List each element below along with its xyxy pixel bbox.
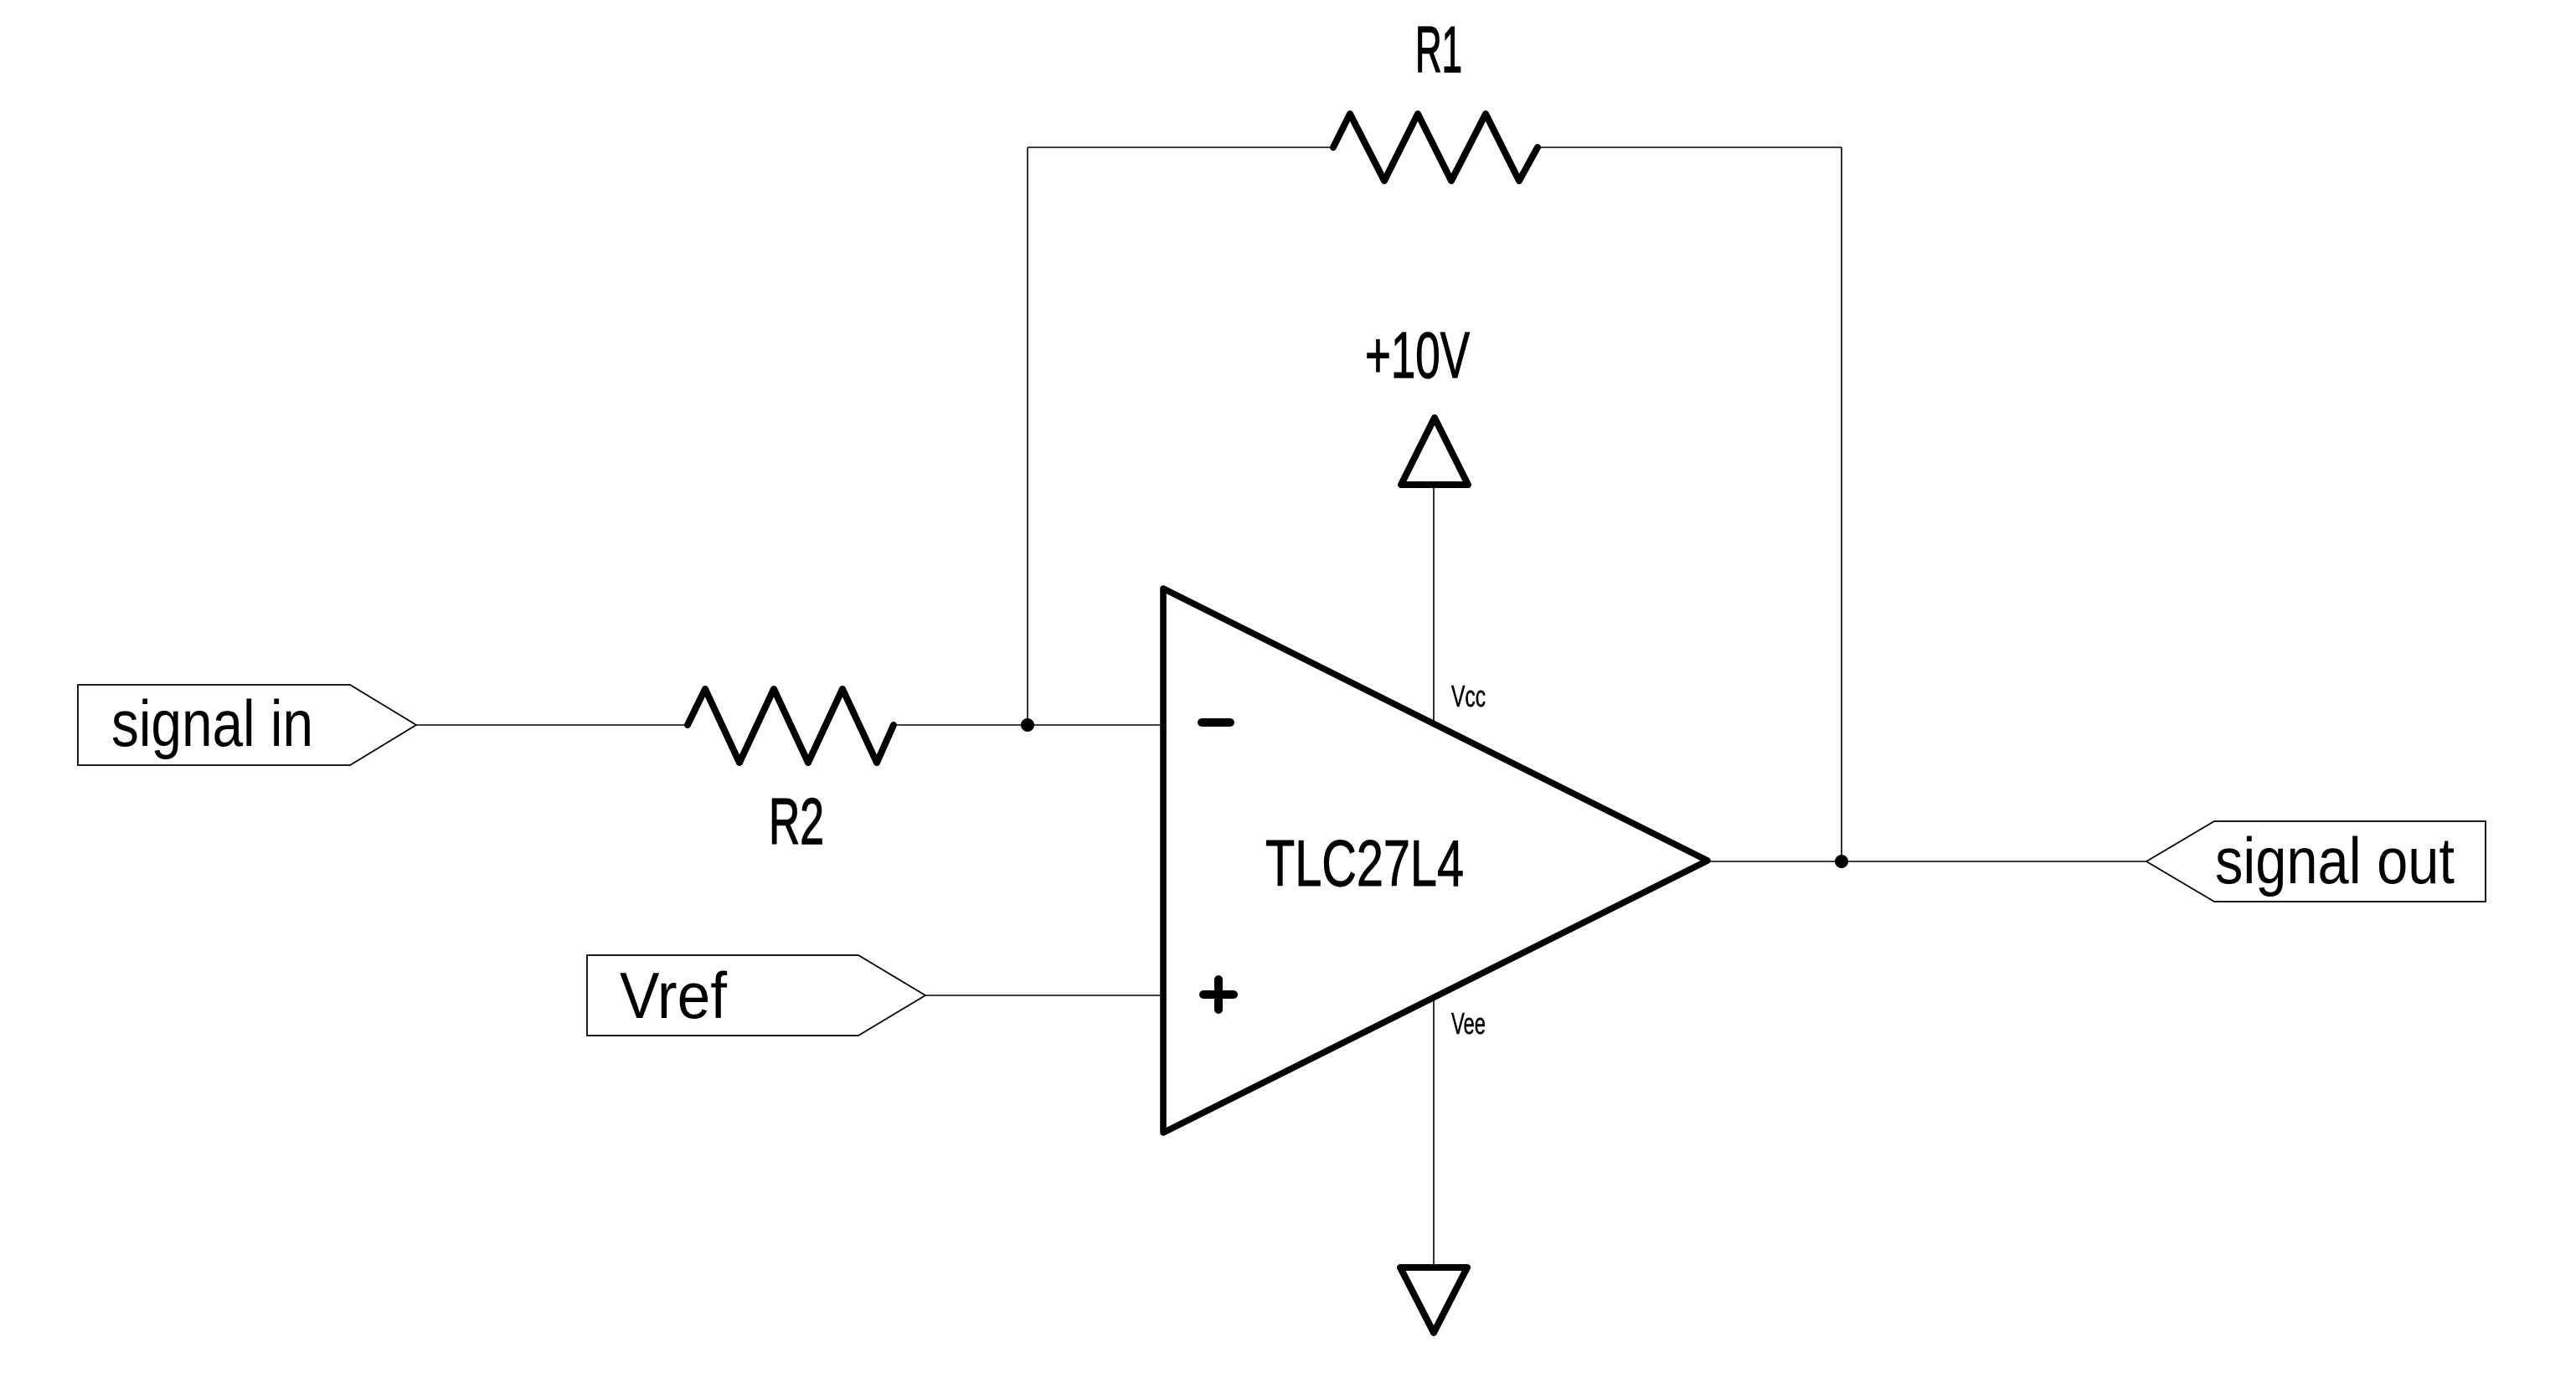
op-amp U1 body — [1163, 589, 1708, 1133]
wire feedback right vertical — [1841, 147, 1842, 861]
svg-text:R1: R1 — [1415, 13, 1462, 86]
flag Vref — [587, 955, 925, 1036]
wire Vcc pin — [1433, 488, 1435, 723]
wire signal in to R2 — [416, 724, 686, 726]
wire output — [1708, 861, 2146, 862]
node inverting input junction — [1021, 718, 1034, 732]
svg-text:TLC27L4: TLC27L4 — [1265, 826, 1464, 900]
power Vee symbol (down triangle) — [1400, 1267, 1467, 1333]
power +10V symbol — [1401, 418, 1468, 485]
flag signal in — [78, 685, 416, 765]
svg-text:Vee: Vee — [1451, 1006, 1486, 1041]
wire Vee pin — [1433, 998, 1435, 1267]
svg-text:signal out: signal out — [2215, 824, 2455, 897]
resistor R1 — [1333, 114, 1538, 181]
op-amp inverting (-) marker — [1202, 718, 1230, 727]
wire R2 to inverting input — [895, 724, 1160, 726]
svg-text:Vcc: Vcc — [1451, 679, 1486, 713]
svg-text:signal in: signal in — [111, 686, 313, 760]
wire Vref to non-inverting input — [925, 995, 1160, 996]
wire feedback left vertical — [1027, 147, 1028, 725]
wire feedback top-right horizontal — [1540, 147, 1842, 148]
svg-text:+10V: +10V — [1365, 318, 1470, 392]
node output junction — [1835, 855, 1848, 868]
op-amp non-inverting (+) marker — [1203, 979, 1234, 1010]
resistor R2 — [688, 689, 894, 763]
wire feedback top-left horizontal — [1028, 147, 1331, 148]
flag signal out — [2146, 821, 2486, 902]
svg-text:R2: R2 — [769, 784, 824, 858]
svg-text:Vref: Vref — [620, 959, 727, 1032]
